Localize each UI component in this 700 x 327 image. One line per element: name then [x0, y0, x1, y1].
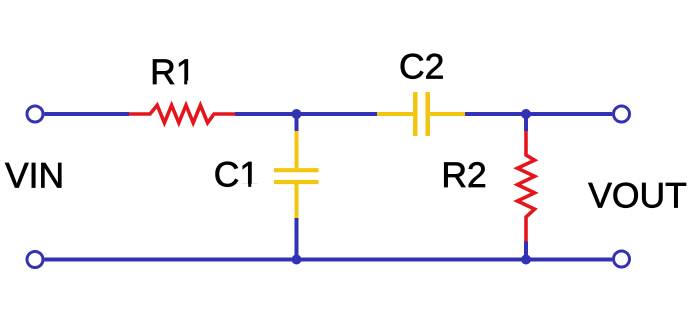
svg-text:VOUT: VOUT — [588, 175, 687, 215]
svg-text:R2: R2 — [441, 155, 486, 195]
svg-text:C1: C1 — [214, 155, 259, 195]
svg-text:VIN: VIN — [5, 155, 64, 195]
svg-text:R1: R1 — [150, 52, 195, 92]
svg-text:C2: C2 — [399, 47, 444, 87]
